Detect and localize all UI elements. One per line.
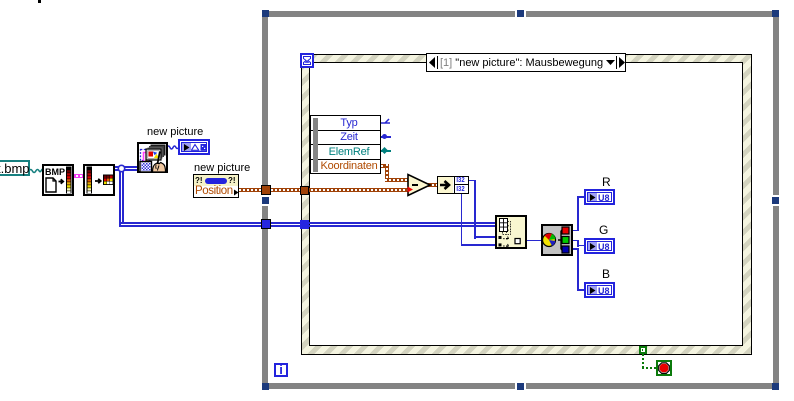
label new picture (property node) [194,162,250,174]
wire: R [573,230,579,231]
wire: B [573,248,579,249]
event structure interior [309,62,743,346]
wire: blue picture squiggle [167,143,179,151]
while loop border bottom [262,383,779,389]
wire: brown Position cluster (property node to subtract) [239,188,409,192]
event timeout terminal (hourglass) [300,53,314,68]
selection handle bottom-mid [517,383,524,390]
wire: G [573,240,579,241]
stray label descender top-left [38,0,41,3]
path constant t.bmp [0,160,30,176]
coercion dot [407,186,414,193]
wire: 2D array double horizontal icon2 to draw icon [114,166,138,168]
wire: I32 bottom [461,193,462,246]
event selector label [426,53,626,72]
indicator R [584,189,615,205]
picture indicator terminal [178,139,210,155]
while loop border top [262,11,779,17]
VI icon: unflatten pixmap [83,164,115,196]
selection handle mid-right [772,197,779,204]
indicator G [584,238,615,254]
wire: green boolean dotted [642,354,644,369]
tunnel: blue on while loop border [261,219,271,229]
selection handle mid-left [262,197,269,204]
wire: teal path squiggle [29,165,43,175]
wire: index out to rgb [527,240,541,241]
RGB split node [541,224,573,256]
iteration terminal i [274,363,288,377]
label G [599,223,608,237]
wire: brown subtract output [428,183,438,187]
event structure border (hatched frame) [301,54,752,355]
wire junction [117,164,126,173]
wire: 2D array double vertical [119,168,121,226]
wire: 2D array double horizontal long [119,222,496,224]
wire: pink pixmap cluster [72,174,84,178]
label new picture (draw icon) [147,126,203,138]
while loop border right [773,11,779,389]
unbundle node [437,176,469,194]
selection handle top-right [772,10,779,17]
selector right arrow [616,56,626,69]
VI icon: draw flattened pixmap [137,142,168,173]
event data node [310,115,381,174]
tunnel: brown on event border [300,186,309,195]
wire: brown Koordinaten segs [381,164,389,168]
subtract function [407,173,432,197]
tunnel: brown on while loop border [261,185,271,195]
terminal Typ stub [381,118,391,127]
selection handle bottom-right [772,383,779,390]
label B [602,267,610,281]
index array node [495,215,527,249]
terminal ElemRef diamond [381,150,391,152]
while loop border left [262,11,268,389]
tunnel: blue on event border [300,220,309,229]
svg-text:BMP: BMP [45,167,65,177]
selector text [440,57,603,69]
wire: I32 top [468,180,476,181]
stop terminal [656,360,672,376]
selection handle top-left [262,10,269,17]
label R [602,175,611,189]
handle gaps [515,11,517,17]
indicator B [584,282,615,298]
selection handle bottom-left [262,383,269,390]
tunnel: green boolean on event bottom border [639,346,647,354]
VI icon: Read BMP File [42,164,74,196]
property node [193,174,239,198]
selection handle top-mid [517,10,524,17]
selector down arrow [605,59,616,66]
terminal Zeit dot [381,136,391,138]
selector left arrow [428,56,438,69]
